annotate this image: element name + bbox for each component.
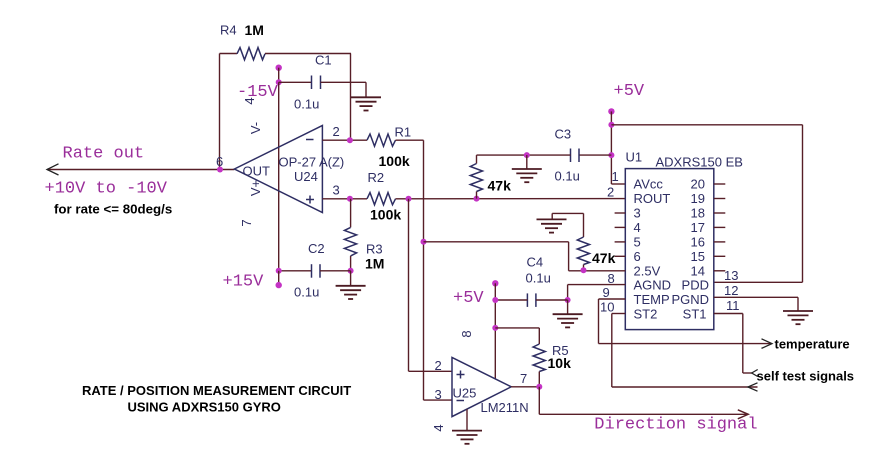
wire ST2 vertical: [611, 314, 613, 388]
wire 2.5V to pin7 horizontal: [569, 270, 626, 272]
svg-text:13: 13: [724, 268, 738, 283]
svg-text:ST1: ST1: [683, 307, 707, 322]
wire R4 top left segment: [220, 53, 238, 55]
wire ST1 stub: [743, 372, 752, 374]
svg-text:temperature: temperature: [775, 337, 850, 352]
svg-text:1: 1: [612, 169, 619, 184]
svg-text:2.5V: 2.5V: [634, 263, 661, 278]
wire R5 bottom: [538, 372, 540, 387]
svg-text:USING ADXRS150 GYRO: USING ADXRS150 GYRO: [128, 400, 281, 415]
svg-text:5: 5: [634, 234, 641, 249]
arrow direction signal: [738, 410, 749, 419]
svg-text:2: 2: [333, 124, 340, 139]
wire ST2 self-test horizontal: [612, 386, 758, 388]
svg-text:100k: 100k: [370, 207, 401, 223]
ground at U25: [452, 431, 482, 444]
svg-text:4: 4: [634, 220, 641, 235]
svg-text:AGND: AGND: [634, 278, 672, 293]
wire 47k-2 top vertical: [583, 213, 585, 237]
pin stub right row2: [714, 198, 726, 200]
wire C4 ground stub: [567, 300, 569, 314]
wire direction horizontal: [539, 413, 747, 415]
svg-text:2: 2: [607, 185, 614, 200]
svg-text:V-: V-: [248, 122, 263, 134]
pin stub left row6: [615, 255, 626, 257]
svg-text:15: 15: [691, 249, 705, 264]
pin stub left row3: [615, 212, 626, 214]
svg-text:10k: 10k: [548, 355, 572, 371]
svg-text:R2: R2: [368, 170, 385, 185]
node +15V / C2 junction: [276, 268, 282, 274]
wire U25 output: [511, 386, 539, 388]
node +5V terminal (top): [608, 108, 614, 114]
svg-text:0.1u: 0.1u: [294, 97, 319, 112]
node R5 branch junction: [492, 325, 498, 331]
wire U24 pin2 to R1: [322, 139, 367, 141]
svg-text:7: 7: [239, 219, 254, 226]
wire R1 right: [396, 139, 424, 141]
pin stub right row6: [714, 255, 726, 257]
resistor R3 (vertical): [344, 227, 356, 256]
ground at C3: [512, 169, 542, 182]
svg-text:U25: U25: [453, 386, 477, 401]
wire TEMP pin9 horizontal: [599, 298, 626, 300]
arrow temperature: [762, 339, 773, 349]
capacitor C3: [571, 149, 580, 163]
resistor R4: [237, 48, 265, 60]
pin stub right row1: [714, 183, 726, 185]
comparator U25 minus sign: [457, 400, 465, 402]
pin stub left row4: [615, 226, 626, 228]
wire +5V-2 vertical to U25 pin8: [494, 283, 496, 379]
svg-text:1M: 1M: [365, 256, 384, 272]
svg-text:PDD: PDD: [682, 278, 709, 293]
svg-text:C2: C2: [308, 241, 325, 256]
svg-text:PGND: PGND: [671, 292, 709, 307]
svg-text:AVcc: AVcc: [634, 177, 664, 192]
resistor 47k second (vertical): [577, 237, 589, 265]
wire temperature horizontal: [599, 343, 772, 345]
svg-text:+5V: +5V: [614, 82, 645, 101]
svg-text:20: 20: [691, 177, 705, 192]
wire ST2 pin10 horizontal: [612, 313, 626, 315]
op-amp U24 triangle: [234, 126, 322, 213]
pin stub right row4: [714, 226, 726, 228]
wire PDD right vertical: [802, 125, 804, 282]
svg-text:V+: V+: [248, 180, 263, 196]
svg-text:16: 16: [691, 234, 705, 249]
wire 47k-2 bottom: [583, 265, 585, 271]
svg-text:+10V to -10V: +10V to -10V: [45, 180, 168, 199]
svg-text:0.1u: 0.1u: [526, 271, 551, 286]
pin stub right row7: [714, 270, 726, 272]
ground at C4/AGND: [553, 314, 583, 327]
resistor R2: [367, 193, 396, 205]
wire U24 pin3 to R2: [322, 198, 367, 200]
svg-text:C4: C4: [527, 255, 544, 270]
wire C4 left: [495, 299, 527, 301]
svg-text:3: 3: [634, 206, 641, 221]
svg-text:RATE / POSITION MEASUREMENT CI: RATE / POSITION MEASUREMENT CIRCUIT: [82, 383, 351, 398]
svg-text:U1: U1: [626, 150, 643, 165]
wire +5V pin1 horizontal: [611, 183, 625, 185]
wire C3 right: [579, 154, 611, 156]
wire R1 vertical to U25 pin3: [423, 140, 425, 400]
wire 47k-2 top horizontal: [552, 212, 583, 214]
svg-text:47k: 47k: [592, 250, 616, 266]
arrow self test 2: [748, 383, 758, 391]
wire R4 top right segment: [265, 53, 351, 55]
node 2.5V branch junction: [421, 239, 427, 245]
capacitor C1: [312, 76, 321, 90]
ground near 47k-2: [537, 219, 567, 232]
svg-text:C3: C3: [555, 127, 572, 142]
svg-text:OUT: OUT: [243, 164, 271, 179]
wire R3 bottom: [350, 256, 352, 271]
wire C4 right: [536, 299, 568, 301]
comparator U25 triangle: [452, 357, 511, 416]
wire direction vertical: [538, 387, 540, 415]
svg-text:TEMP: TEMP: [634, 292, 670, 307]
IC U1 box: [625, 169, 714, 330]
wire U25 ground stub: [466, 409, 468, 430]
pin stub right row3: [714, 212, 726, 214]
svg-text:3: 3: [333, 183, 340, 198]
svg-text:ST2: ST2: [634, 307, 658, 322]
wire +5V rail to PDD (top horizontal): [611, 124, 802, 126]
svg-text:4: 4: [242, 97, 257, 104]
svg-text:9: 9: [603, 285, 610, 300]
capacitor C4: [527, 293, 536, 307]
svg-text:Direction signal: Direction signal: [594, 416, 757, 435]
node +5V-2 terminal: [492, 280, 498, 286]
capacitor C2: [312, 264, 321, 278]
wire AGND pin8 horizontal: [568, 284, 626, 286]
node -15V / C1 junction: [276, 79, 282, 85]
wire R2 right to ADXRS pin2: [396, 198, 626, 200]
wire C1 left: [279, 81, 312, 83]
wire R5 top vertical: [538, 328, 540, 344]
svg-text:2: 2: [435, 358, 442, 373]
wire op-amp supply vertical (-15V to +15V): [278, 82, 280, 270]
wire AGND vertical to C4: [567, 285, 569, 300]
wire C2 right: [320, 270, 351, 272]
pin stub right row5: [714, 241, 726, 243]
svg-text:LM211N: LM211N: [481, 400, 529, 415]
wire R5 branch horizontal: [495, 327, 539, 329]
node U25 output junction: [536, 384, 542, 390]
wire 2.5V branch horizontal: [424, 241, 569, 243]
wire R3 ground stub: [350, 271, 352, 286]
svg-text:6: 6: [634, 249, 641, 264]
svg-text:ROUT: ROUT: [634, 191, 671, 206]
svg-text:self test signals: self test signals: [757, 369, 855, 384]
node C2 right / R3 bottom: [348, 268, 354, 274]
svg-text:17: 17: [691, 220, 705, 235]
node R2 right junction: [406, 196, 412, 202]
wire U25 pin2 horizontal: [409, 370, 453, 372]
wire Rate out with arrow: [47, 169, 234, 171]
svg-text:47k: 47k: [488, 178, 512, 194]
wire C3 left: [477, 154, 571, 156]
pin stub left row5: [615, 241, 626, 243]
wire 47k-1 bottom: [476, 192, 478, 199]
wire +5V main vertical: [610, 111, 612, 184]
wire R4 left vertical feedback: [219, 54, 221, 170]
wire +15V stub: [278, 271, 280, 285]
svg-text:19: 19: [691, 191, 705, 206]
wire ST1 vertical: [742, 314, 744, 374]
ground at PGND: [783, 311, 813, 324]
svg-text:+5V: +5V: [453, 289, 484, 308]
node C3 left / ground junction: [524, 152, 530, 158]
svg-text:100k: 100k: [379, 153, 410, 169]
node -15V terminal: [276, 65, 282, 71]
op-amp U24 plus sign: [306, 196, 314, 204]
node output of U24: [217, 167, 223, 173]
svg-text:R3: R3: [366, 242, 383, 257]
svg-text:11: 11: [726, 298, 740, 313]
resistor R5 (vertical): [533, 344, 545, 372]
node +5V top-rail junction: [608, 122, 614, 128]
node pin2 / C1 branch junction: [347, 137, 353, 143]
svg-text:for rate <= 80deg/s: for rate <= 80deg/s: [54, 202, 172, 217]
wire pin13 PDD horizontal: [714, 281, 803, 283]
wire ground-2 stub: [551, 213, 553, 219]
wire temperature vertical: [598, 299, 600, 344]
svg-text:6: 6: [216, 154, 223, 169]
wire C1 right: [321, 81, 367, 83]
wire C3 ground stub: [526, 155, 528, 169]
svg-text:+15V: +15V: [223, 273, 265, 292]
svg-text:7: 7: [520, 371, 527, 386]
node +15V terminal: [276, 282, 282, 288]
comparator U25 plus sign: [457, 371, 465, 379]
ground at C1: [351, 97, 381, 110]
svg-text:C1: C1: [315, 53, 332, 68]
wire ST1 pin11 horizontal: [714, 313, 743, 315]
svg-text:R4: R4: [220, 23, 237, 38]
svg-text:Rate out: Rate out: [63, 145, 145, 164]
svg-text:1M: 1M: [245, 22, 264, 38]
wire R2 node vertical to U25 pin2: [408, 199, 410, 371]
arrow rate out: [47, 164, 59, 175]
svg-text:18: 18: [691, 206, 705, 221]
svg-text:12: 12: [724, 283, 738, 298]
wire U25 pin3 horizontal: [424, 399, 453, 401]
svg-text:4: 4: [431, 424, 446, 431]
resistor 47k first (vertical): [470, 164, 482, 192]
node 47k-1 bottom junction: [474, 196, 480, 202]
wire PGND ground stub: [797, 297, 799, 311]
node +5V-2 / C4 junction: [492, 297, 498, 303]
svg-text:U24: U24: [294, 169, 318, 184]
svg-text:0.1u: 0.1u: [294, 285, 319, 300]
node C4 right junction: [565, 297, 571, 303]
svg-text:R1: R1: [395, 125, 412, 140]
wire 47k-1 top vertical: [476, 155, 478, 163]
ground at R3/C2: [336, 286, 366, 299]
resistor R1: [367, 134, 396, 146]
svg-text:8: 8: [459, 330, 474, 337]
node C3 right junction: [608, 152, 614, 158]
wire vertical from R4 to pin2 node: [350, 54, 352, 141]
wire R3 top vertical: [350, 199, 352, 228]
svg-text:OP-27 A(Z): OP-27 A(Z): [279, 155, 345, 170]
node pin3 / R3 branch junction: [347, 196, 353, 202]
svg-text:8: 8: [608, 271, 615, 286]
wire PGND pin12 horizontal: [714, 296, 798, 298]
arrow self test 1: [752, 370, 758, 377]
svg-text:14: 14: [691, 263, 705, 278]
wire 2.5V branch vertical: [568, 242, 570, 271]
svg-text:ADXRS150 EB: ADXRS150 EB: [656, 155, 743, 170]
wire C1 ground stub: [365, 82, 367, 97]
node 47k-2 bottom junction: [581, 267, 587, 273]
svg-text:3: 3: [435, 387, 442, 402]
op-amp U24 minus sign: [306, 139, 314, 141]
wire -15V stub: [278, 68, 280, 83]
svg-text:10: 10: [600, 300, 614, 315]
svg-text:0.1u: 0.1u: [555, 169, 580, 184]
wire C2 left: [279, 270, 312, 272]
